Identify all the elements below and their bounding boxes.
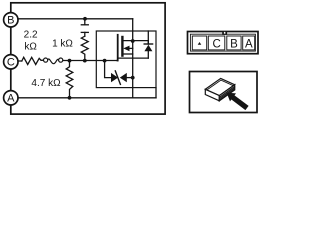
- resistor 1 kOhm (vertical zigzag): [81, 36, 88, 59]
- terminal B: [4, 13, 18, 27]
- wire zener right to B vertical: [127, 77, 133, 79]
- diode D1 cathode lead from box top: [147, 31, 149, 44]
- curved connector wire: [48, 59, 59, 64]
- svg-text:A: A: [7, 93, 15, 105]
- unit outline frame: [11, 3, 165, 114]
- zener bar (slanted): [115, 71, 120, 85]
- connector gap (bar pair) in 1 kOhm branch: [81, 19, 88, 36]
- diode D1 anode lead: [147, 51, 149, 58]
- svg-text:2.2: 2.2: [24, 30, 38, 41]
- wire A row riser to box corner: [155, 88, 157, 98]
- resistor 4.7 kOhm (vertical zigzag): [66, 61, 73, 98]
- wire anode to gate node: [118, 57, 149, 59]
- junction dot at 4.7k bottom: [68, 96, 72, 100]
- resistor 2.2 kOhm (horizontal zigzag): [22, 57, 44, 64]
- junction dot on B rail: [83, 17, 87, 21]
- connector cell B: [227, 36, 241, 50]
- transistor Q1 body arrow: [123, 46, 132, 52]
- svg-text:1 kΩ: 1 kΩ: [52, 39, 73, 50]
- diode D1 cathode bar: [144, 43, 152, 45]
- junction dot at 4.7k top: [68, 59, 72, 63]
- connector lock tab: [222, 31, 227, 35]
- wire A row: [18, 97, 156, 99]
- zener diode right (points left): [120, 73, 127, 82]
- transistor Q1 source stub: [122, 53, 132, 55]
- transistor Q1 drain stub: [122, 40, 148, 42]
- transistor Q1 channel bar: [121, 37, 123, 56]
- package top face: [205, 78, 234, 95]
- svg-text:kΩ: kΩ: [24, 41, 37, 52]
- junction dot at zener right: [131, 76, 135, 80]
- package right face: [219, 85, 234, 101]
- hybrid IC box: [96, 31, 156, 88]
- pointer arrow: [227, 93, 249, 111]
- svg-text:C: C: [7, 57, 15, 69]
- wire B rail: [18, 18, 133, 20]
- junction dot at zener branch: [103, 59, 107, 63]
- connector terminal circle 1 on C row: [44, 58, 48, 62]
- package terminal slots: [220, 86, 235, 99]
- wire C row middle: [63, 60, 117, 62]
- connector pin-view box (right top): [188, 32, 259, 54]
- wire B vertical drop: [132, 19, 134, 98]
- wire C row to gate: [116, 60, 119, 62]
- package left face: [205, 89, 219, 101]
- transistor Q1 gate bar: [117, 35, 119, 61]
- junction dot at 1k bottom: [83, 59, 87, 63]
- connector cell A: [243, 36, 255, 50]
- wire zener branch down: [105, 61, 111, 78]
- connector cell 1 index mark: [198, 42, 202, 45]
- terminal A: [4, 91, 18, 105]
- diode D1 triangle (points up): [144, 45, 152, 52]
- svg-text:C: C: [213, 38, 221, 50]
- svg-text:B: B: [7, 15, 14, 27]
- connector cell C: [208, 36, 225, 50]
- label 2.2 kOhm: [24, 30, 38, 53]
- package seam line: [208, 80, 233, 89]
- terminal C: [4, 55, 18, 69]
- component view box (right bottom): [190, 72, 258, 113]
- connector cell 1: [192, 36, 206, 50]
- zener diode left (points right): [111, 73, 118, 82]
- svg-text:4.7 kΩ: 4.7 kΩ: [31, 78, 61, 89]
- svg-text:B: B: [230, 38, 238, 50]
- svg-text:A: A: [245, 38, 253, 50]
- junction dot at drain: [131, 39, 135, 43]
- connector terminal circle 2 on C row: [59, 58, 63, 62]
- wire C row left: [18, 60, 22, 62]
